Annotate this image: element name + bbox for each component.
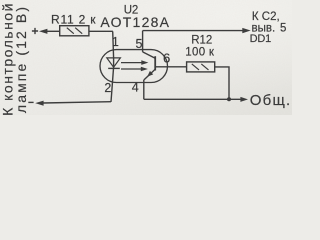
wire pin 1 / pin 2 vertical through LED [111,31,114,102]
svg-text:DD1: DD1 [250,33,271,45]
resistor R11 [60,26,89,36]
wire top-left to R11 with left arrow [39,29,60,34]
svg-text:АОТ128А: АОТ128А [100,14,170,30]
svg-text:5: 5 [280,22,286,34]
svg-text:100 к: 100 к [185,46,215,58]
junction node dot [227,97,231,101]
node minus terminal [28,101,33,103]
node plus terminal [32,28,38,34]
svg-text:5: 5 [136,37,143,51]
wire bottom-left with left arrow (minus) [35,101,111,106]
phototransistor emitter with arrow [144,69,155,80]
optocoupler U2 body [100,50,168,83]
phototransistor base bar [154,56,156,70]
wire pin 5 to top-right arrow [143,28,251,52]
wire pin 4 down and right to Obsh arrow [144,80,248,102]
svg-text:R11 2 к: R11 2 к [51,13,96,27]
svg-text:Общ.: Общ. [250,92,292,109]
light arrow 1 [121,60,148,65]
svg-text:2: 2 [104,81,111,95]
svg-text:R12: R12 [191,35,212,47]
phototransistor collector [143,52,156,58]
resistor R12 [187,62,215,72]
light arrow 2 [121,67,148,72]
wire R12 to junction [215,67,229,99]
svg-text:6: 6 [163,50,170,65]
wire pin 6 base to R12 [155,66,186,68]
svg-text:4: 4 [132,81,139,95]
svg-text:лампе (12 В): лампе (12 В) [13,5,29,113]
LED diode of optocoupler [107,58,121,69]
svg-text:1: 1 [112,35,119,49]
wire R11 to pin1 corner [89,30,113,32]
